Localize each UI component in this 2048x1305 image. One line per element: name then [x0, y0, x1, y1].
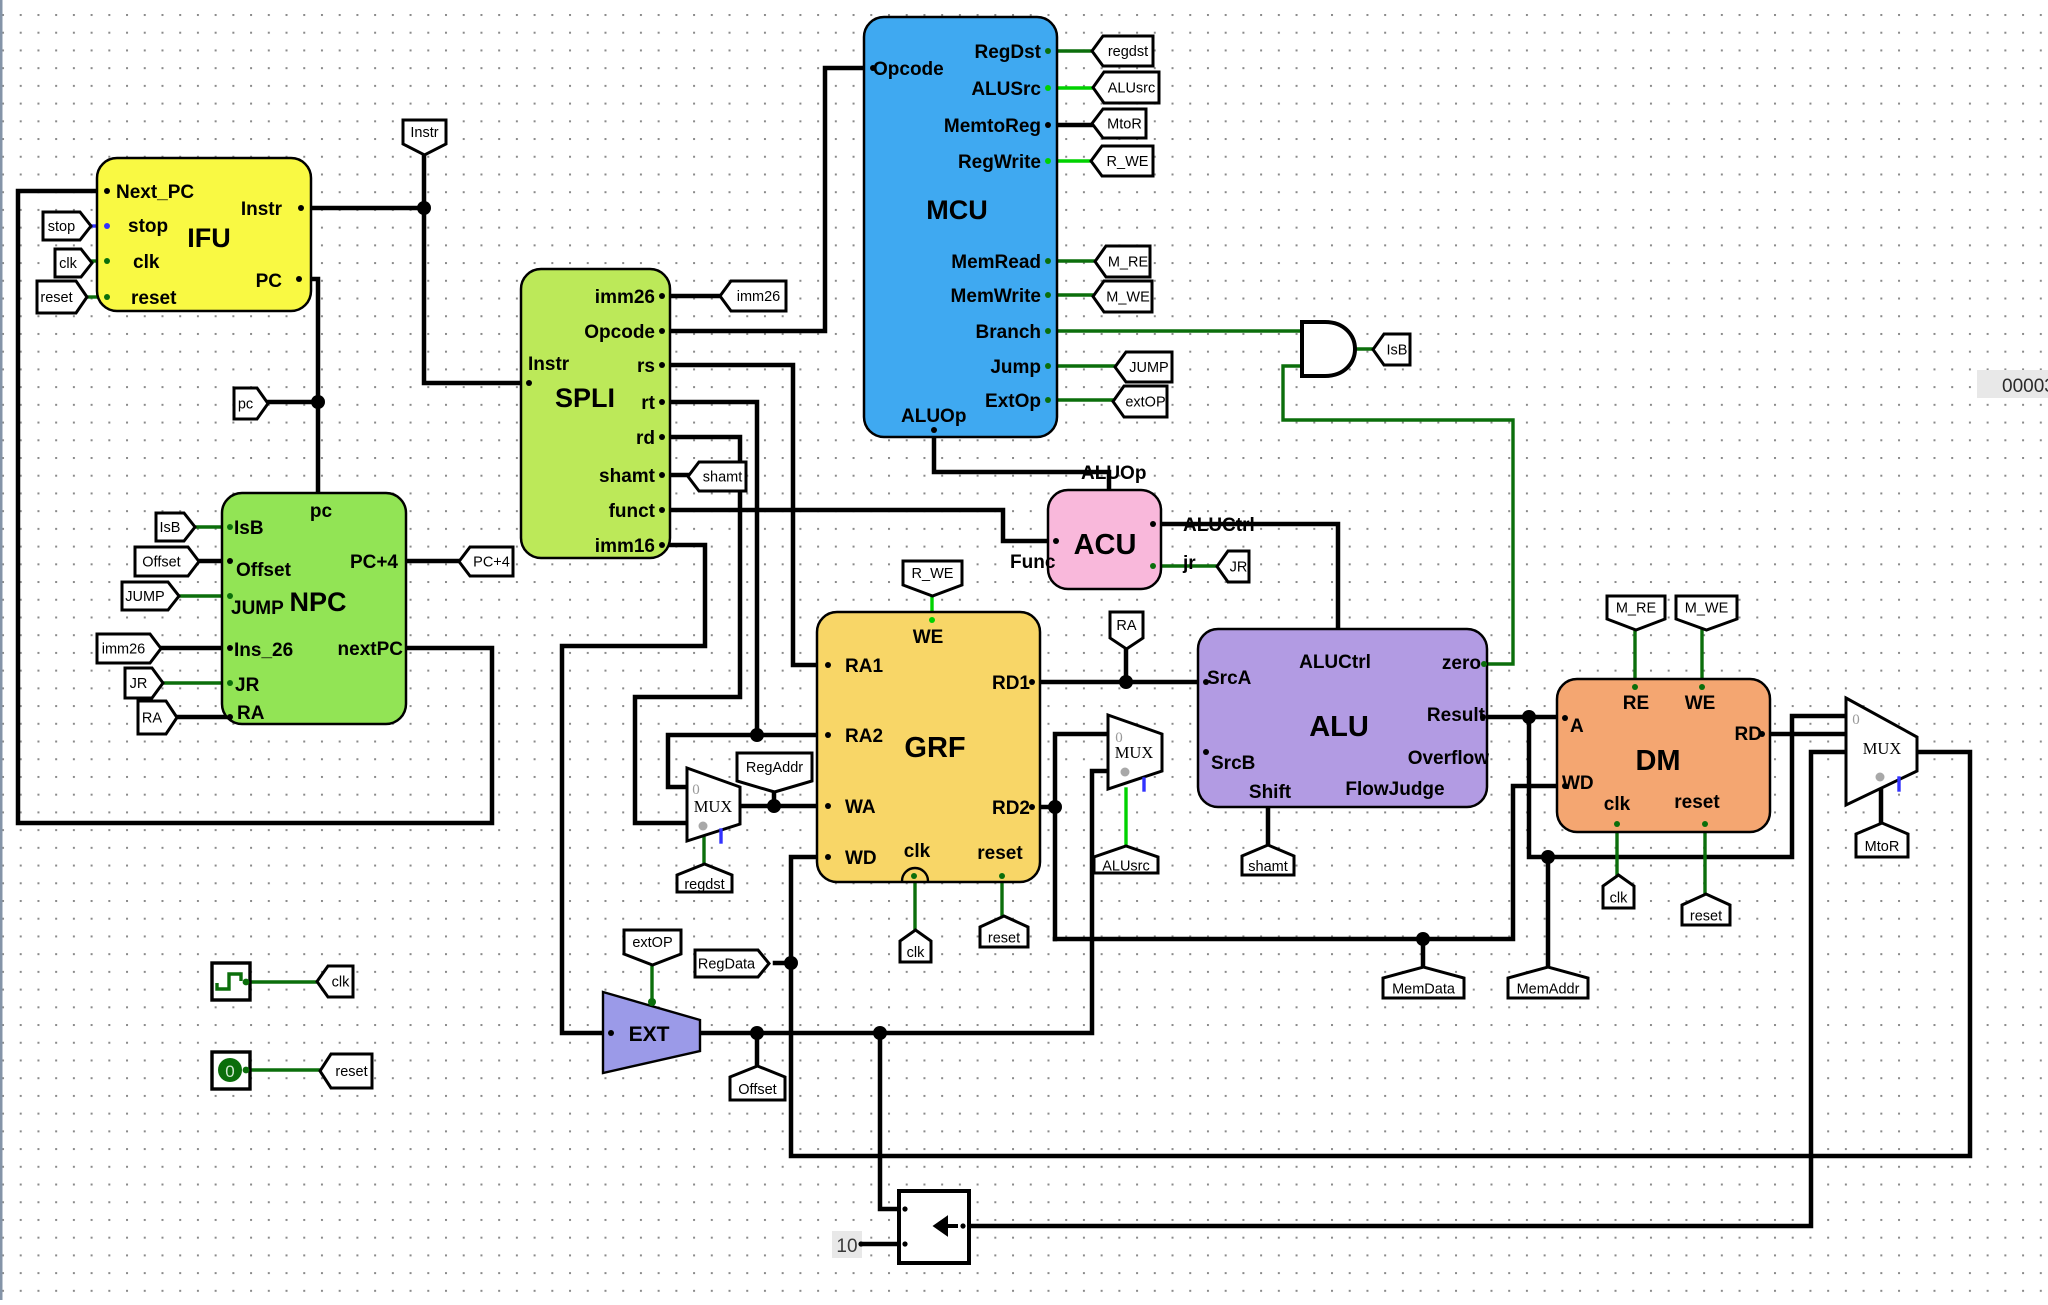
subcircuit NPC	[222, 493, 406, 724]
pin JR	[227, 680, 233, 686]
constant 0	[212, 1052, 250, 1089]
svg-text:IFU: IFU	[187, 223, 231, 253]
subcircuit MCU	[864, 17, 1057, 437]
wire Branch to AND gate	[1057, 329, 1302, 332]
AND gate	[1302, 322, 1355, 376]
tunnel R_WE (MCU)	[1091, 146, 1153, 176]
svg-text:RA: RA	[237, 703, 265, 724]
svg-text:ALUSrc: ALUSrc	[971, 79, 1041, 100]
svg-text:Offset: Offset	[236, 560, 292, 581]
svg-text:Opcode: Opcode	[873, 59, 944, 80]
tunnel reset (GRF)	[980, 916, 1028, 947]
extender EXT	[603, 992, 700, 1073]
pin zero	[1481, 661, 1487, 667]
svg-text:jr: jr	[1182, 553, 1196, 574]
svg-text:ExtOp: ExtOp	[985, 391, 1041, 412]
wire DM clk stub	[1615, 832, 1618, 876]
tunnel clk (GRF)	[900, 930, 931, 962]
mux ALUsrc select dot	[1121, 768, 1130, 777]
svg-text:IsB: IsB	[234, 518, 264, 539]
subcircuit ALU	[1198, 629, 1487, 807]
clock input arc GRF	[902, 868, 928, 881]
pin WA	[825, 803, 831, 809]
svg-text:RA: RA	[1116, 618, 1136, 634]
svg-text:RegAddr: RegAddr	[746, 760, 803, 776]
svg-text:reset: reset	[988, 931, 1020, 947]
svg-text:Overflow: Overflow	[1408, 748, 1490, 769]
junction Instr	[417, 201, 431, 215]
svg-text:Ins_26: Ins_26	[234, 640, 293, 661]
svg-text:Jump: Jump	[990, 357, 1041, 378]
svg-text:RD: RD	[1735, 724, 1762, 745]
pin ALUCtrl out	[1150, 521, 1156, 527]
svg-text:0: 0	[692, 782, 700, 798]
pin stop	[104, 223, 110, 229]
wire AND output to IsB tunnel	[1355, 347, 1373, 350]
tunnel PC+4	[459, 547, 513, 576]
svg-text:clk: clk	[907, 945, 925, 961]
svg-text:reset: reset	[335, 1064, 367, 1080]
svg-text:Next_PC: Next_PC	[116, 182, 194, 203]
pin SPLI shamt	[659, 472, 665, 478]
tunnel IsB (AND out)	[1373, 334, 1410, 365]
wire reset stub	[86, 295, 97, 298]
svg-text:Instr: Instr	[528, 354, 570, 375]
pin clk	[104, 258, 110, 264]
junction RD2	[1048, 800, 1062, 814]
wire extOP to EXT	[650, 964, 653, 1000]
svg-text:clk: clk	[332, 975, 350, 991]
svg-text:shamt: shamt	[1248, 859, 1288, 875]
subcircuit IFU	[97, 158, 311, 311]
pin WD	[825, 854, 831, 860]
junction EXT-shifter	[873, 1026, 887, 1040]
wire jr to JR tunnel	[1161, 564, 1217, 567]
svg-text:FlowJudge: FlowJudge	[1345, 779, 1444, 800]
svg-text:M_RE: M_RE	[1108, 255, 1149, 271]
wire stop stub	[90, 224, 97, 227]
svg-text:RA2: RA2	[845, 726, 883, 747]
tunnel RegData	[695, 950, 769, 977]
svg-text:M_WE: M_WE	[1106, 290, 1150, 306]
tunnel MtoR (MCU)	[1092, 109, 1146, 138]
pin SPLI imm26	[659, 293, 665, 299]
wire Result to DM A	[1487, 715, 1557, 720]
svg-text:RD2: RD2	[992, 798, 1030, 819]
wire shifter output to MUX	[969, 752, 1846, 1226]
svg-text:MemtoReg: MemtoReg	[944, 116, 1041, 137]
pin RA	[227, 714, 233, 720]
svg-text:MUX: MUX	[694, 797, 733, 816]
mux regdst enable stub	[719, 830, 722, 842]
pin RD2	[1029, 804, 1035, 810]
svg-text:Opcode: Opcode	[584, 322, 655, 343]
svg-text:WA: WA	[845, 797, 876, 818]
junction EXT-Offset	[750, 1026, 764, 1040]
svg-text:PC+4: PC+4	[473, 555, 510, 571]
wire RA tunnel to NPC	[176, 715, 226, 720]
wire nextPC feedback loop	[18, 191, 492, 823]
wire zero to AND gate	[1283, 366, 1513, 664]
svg-text:MtoR: MtoR	[1107, 117, 1142, 133]
svg-text:0: 0	[1115, 730, 1123, 746]
wire RD2 branch	[1040, 805, 1055, 810]
pin DM clk	[1614, 821, 1620, 827]
wire RD1 to SrcA	[1040, 680, 1198, 685]
pin SrcB	[1203, 749, 1209, 755]
wire clk stub	[91, 259, 97, 262]
wire const 10 to shifter	[863, 1242, 899, 1247]
pin RD	[1759, 731, 1765, 737]
svg-text:SrcB: SrcB	[1211, 753, 1255, 774]
wire GRF clk stub	[913, 882, 916, 931]
svg-text:MemWrite: MemWrite	[951, 286, 1041, 307]
wire R_WE to WE	[930, 593, 933, 612]
svg-text:JUMP: JUMP	[231, 598, 284, 619]
pin GRF reset	[999, 873, 1005, 879]
tunnel R_WE (GRF)	[903, 561, 962, 596]
svg-text:reset: reset	[1674, 792, 1720, 813]
pin MemRead	[1045, 258, 1051, 264]
pin SPLI rs	[659, 362, 665, 368]
svg-text:M_RE: M_RE	[1616, 601, 1657, 617]
svg-text:ALUCtrl: ALUCtrl	[1299, 652, 1371, 673]
svg-text:EXT: EXT	[629, 1023, 670, 1046]
wire JR tunnel to NPC	[162, 681, 226, 684]
pin RE	[1632, 684, 1638, 690]
wire DM RD to MUX	[1770, 732, 1846, 737]
wire RegAddr stub	[772, 792, 777, 806]
svg-text:Shift: Shift	[1249, 782, 1292, 803]
wire M_RE stub	[1633, 627, 1636, 684]
tunnel ALUsrc (mux)	[1094, 846, 1158, 873]
svg-text:clk: clk	[59, 256, 77, 272]
constant 10	[832, 1231, 862, 1258]
wire MemWrite stub	[1057, 293, 1093, 296]
tunnel MtoR (mux)	[1856, 823, 1908, 857]
svg-text:Result: Result	[1427, 705, 1486, 726]
tunnel MemAddr	[1508, 967, 1588, 998]
svg-text:funct: funct	[609, 501, 656, 522]
svg-text:clk: clk	[133, 252, 160, 273]
pin shifter dist	[902, 1241, 907, 1246]
svg-text:nextPC: nextPC	[338, 639, 404, 660]
svg-text:WD: WD	[845, 848, 877, 869]
svg-text:RA1: RA1	[845, 656, 883, 677]
wire GRF reset stub	[1000, 882, 1003, 917]
wire WA line	[740, 804, 817, 809]
pin SPLI funct	[659, 507, 665, 513]
tunnel ALUsrc (MCU)	[1093, 72, 1159, 103]
svg-text:IsB: IsB	[1387, 343, 1408, 359]
pin ALUOp	[931, 427, 937, 433]
wire Instr vertical to SPLI	[424, 152, 521, 383]
pin EXT in	[608, 1030, 614, 1036]
svg-text:R_WE: R_WE	[912, 566, 954, 582]
junction RegData-WD	[784, 956, 798, 970]
pin shifter A	[902, 1206, 907, 1211]
tunnel JUMP (NPC)	[122, 582, 179, 610]
svg-text:ALUCtrl: ALUCtrl	[1183, 515, 1255, 536]
wire M_WE stub	[1700, 627, 1703, 684]
junction RA-RD1	[1119, 675, 1133, 689]
pin MemWrite	[1045, 292, 1051, 298]
wire ExtOp stub	[1057, 398, 1113, 401]
pin RD1	[1029, 679, 1035, 685]
tunnel M_WE (MCU)	[1093, 281, 1152, 312]
svg-text:imm26: imm26	[102, 642, 146, 658]
subcircuit SPLI	[521, 269, 670, 558]
svg-text:JR: JR	[235, 675, 260, 696]
pin DM WD	[1562, 783, 1568, 789]
pin Ins_26	[227, 645, 233, 651]
shifter	[899, 1191, 969, 1263]
wire RegWrite stub	[1057, 159, 1091, 162]
svg-text:MemRead: MemRead	[951, 252, 1041, 273]
svg-text:10: 10	[836, 1236, 857, 1257]
svg-text:Offset: Offset	[738, 1082, 776, 1098]
svg-text:GRF: GRF	[904, 732, 965, 764]
wire MemtoReg stub	[1057, 123, 1092, 128]
svg-text:PC+4: PC+4	[350, 552, 398, 573]
wire Offset tunnel to NPC	[198, 559, 226, 564]
svg-text:ALU: ALU	[1309, 711, 1369, 743]
pin MemtoReg	[1045, 122, 1051, 128]
svg-text:Func: Func	[1010, 552, 1056, 573]
tunnel clk (source)	[317, 966, 353, 997]
pin SPLI rd	[659, 434, 665, 440]
wire Jump stub	[1057, 364, 1115, 367]
wire Result to MUX in0	[1529, 716, 1846, 857]
tunnel M_RE (DM)	[1607, 596, 1665, 630]
svg-text:rt: rt	[641, 393, 655, 414]
pin Branch	[1045, 328, 1051, 334]
wire regdst select stub	[702, 836, 705, 865]
svg-text:Offset: Offset	[142, 555, 180, 571]
wire const0 to reset tunnel	[250, 1068, 321, 1071]
tunnel reset (IFU)	[37, 281, 87, 313]
svg-text:DM: DM	[1635, 745, 1680, 777]
wire rd to mux	[635, 437, 740, 823]
wire DM reset stub	[1703, 832, 1706, 895]
tunnel Instr (top)	[403, 120, 446, 155]
wire WD write-back	[791, 752, 1970, 1156]
tunnel stop	[43, 212, 91, 240]
junction MemData	[1416, 932, 1430, 946]
tunnel clk (IFU)	[55, 249, 92, 277]
pin SPLI rt	[659, 399, 665, 405]
clock source	[212, 963, 250, 1000]
junction RegAddr-WA	[767, 799, 781, 813]
pin GRF clk	[911, 873, 917, 879]
svg-text:RegWrite: RegWrite	[958, 152, 1041, 173]
tunnel RA (GRF)	[1110, 612, 1143, 649]
svg-text:M_WE: M_WE	[1685, 601, 1729, 617]
svg-text:clk: clk	[1610, 891, 1628, 907]
pin RegDst	[1045, 48, 1051, 54]
svg-text:JR: JR	[1230, 560, 1248, 576]
svg-text:MtoR: MtoR	[1865, 839, 1900, 855]
wire ALUsrc select stub	[1124, 789, 1127, 847]
tunnel JR (NPC)	[125, 668, 163, 698]
pin RA2	[825, 732, 831, 738]
pin Next_PC	[104, 188, 110, 194]
svg-text:MCU: MCU	[926, 195, 988, 225]
svg-text:regdst: regdst	[1108, 44, 1148, 60]
pin SrcA	[1203, 679, 1209, 685]
tunnel extOP (EXT)	[624, 930, 681, 965]
wire MemRead stub	[1057, 259, 1095, 262]
svg-text:ALUOp: ALUOp	[901, 406, 966, 427]
wire ALUSrc stub	[1057, 86, 1093, 89]
wire ALUOp to ACU	[934, 437, 1109, 490]
pin Opcode	[870, 65, 876, 71]
svg-text:SrcA: SrcA	[1207, 668, 1252, 689]
svg-text:clk: clk	[904, 841, 931, 862]
wire Offset stub	[755, 1033, 760, 1067]
svg-text:stop: stop	[48, 219, 75, 235]
pin SPLI Instr	[526, 380, 532, 386]
pin Instr	[298, 205, 304, 211]
svg-text:extOP: extOP	[632, 935, 672, 951]
svg-text:WD: WD	[1562, 773, 1594, 794]
wire RD2 to DM WD	[1055, 786, 1557, 939]
mux MtoR enable stub	[1897, 778, 1900, 790]
svg-text:RD1: RD1	[992, 673, 1030, 694]
pin RA1	[825, 662, 831, 668]
svg-text:stop: stop	[128, 216, 168, 237]
wire rt vertical	[670, 402, 757, 735]
svg-text:ALUOp: ALUOp	[1081, 463, 1146, 484]
svg-text:imm16: imm16	[595, 536, 655, 557]
svg-text:R_WE: R_WE	[1107, 154, 1149, 170]
tunnel M_WE (DM)	[1676, 596, 1737, 630]
pin PC	[296, 276, 302, 282]
pin WE	[929, 617, 935, 623]
tunnel RegAddr	[737, 753, 812, 792]
tunnel extOP (MCU)	[1113, 386, 1167, 417]
svg-text:imm26: imm26	[595, 287, 655, 308]
wire PC to NPC pc	[311, 279, 318, 493]
tunnel regdst (MCU)	[1092, 36, 1153, 66]
wire imm26 tunnel to Ins_26	[160, 646, 226, 651]
wire IsB tunnel to NPC	[194, 525, 226, 528]
tunnel regdst (mux)	[677, 864, 732, 892]
pin RegWrite	[1045, 158, 1051, 164]
wire EXT output	[700, 771, 1108, 1033]
mux MtoR select dot	[1876, 773, 1885, 782]
tunnel imm26 (NPC)	[97, 634, 161, 663]
wire imm16 to EXT	[562, 545, 705, 1033]
svg-text:NPC: NPC	[289, 587, 346, 617]
wire RA2 line	[668, 735, 817, 787]
wire Shift to shamt tunnel	[1266, 807, 1271, 846]
pin Jump	[1045, 363, 1051, 369]
svg-text:PC: PC	[256, 271, 283, 292]
wire MemAddr stub	[1546, 857, 1551, 968]
svg-text:JUMP: JUMP	[1129, 360, 1168, 376]
tunnel JUMP (MCU)	[1115, 352, 1172, 382]
svg-text:Instr: Instr	[241, 199, 283, 220]
svg-text:A: A	[1570, 716, 1584, 737]
mux regdst	[687, 768, 740, 841]
probe value 00003	[1977, 370, 2048, 398]
junction pc	[311, 395, 325, 409]
svg-text:ACU: ACU	[1074, 529, 1137, 561]
subcircuit DM	[1557, 679, 1770, 832]
wire funct to ACU Func	[670, 510, 1048, 541]
svg-text:regdst: regdst	[684, 877, 724, 893]
svg-text:MemData: MemData	[1392, 982, 1456, 998]
pin SPLI Opcode	[659, 328, 665, 334]
pin const10	[858, 1241, 863, 1246]
svg-text:MUX: MUX	[1863, 739, 1902, 758]
wire MemData stub	[1421, 939, 1426, 968]
pin JUMP	[227, 593, 233, 599]
svg-text:Instr: Instr	[410, 125, 438, 141]
mux ALUsrc	[1108, 715, 1162, 789]
svg-text:Branch: Branch	[976, 322, 1041, 343]
tunnel MemData	[1383, 967, 1464, 998]
wire RegData stub	[775, 961, 791, 966]
tunnel RA (NPC)	[138, 701, 177, 734]
pin A	[1562, 715, 1568, 721]
pin ALUSrc	[1045, 85, 1051, 91]
svg-text:RegData: RegData	[698, 957, 756, 973]
svg-text:WE: WE	[1685, 693, 1716, 714]
wire Instr (IFU to junction)	[311, 206, 424, 211]
wire JUMP tunnel to NPC	[178, 594, 226, 597]
mux MtoR	[1846, 698, 1917, 805]
pin DM WE	[1699, 684, 1705, 690]
tunnel JR (ACU)	[1217, 551, 1249, 582]
svg-text:JR: JR	[130, 676, 148, 692]
tunnel IsB (NPC)	[156, 513, 195, 541]
svg-text:rd: rd	[636, 428, 655, 449]
svg-text:pc: pc	[238, 397, 253, 413]
svg-text:reset: reset	[131, 288, 177, 309]
wire ALUCtrl to ALU	[1161, 524, 1338, 629]
tunnel M_RE (MCU)	[1095, 246, 1150, 277]
svg-text:pc: pc	[310, 501, 333, 522]
pin shifter out	[960, 1223, 965, 1228]
svg-text:RA: RA	[142, 711, 162, 727]
junction MemAddr	[1541, 850, 1555, 864]
wire Opcode to MCU	[670, 68, 864, 331]
pin EXT extOP	[648, 998, 656, 1006]
wire pc tunnel stub	[267, 400, 318, 405]
svg-text:shamt: shamt	[703, 470, 743, 486]
svg-text:RegDst: RegDst	[974, 42, 1041, 63]
tunnel Offset (EXT)	[730, 1066, 785, 1100]
tunnel shamt (ALU)	[1242, 845, 1294, 875]
wire PC+4 to tunnel	[406, 559, 460, 564]
pin Result	[1480, 714, 1486, 720]
tunnel imm26 (SPLI)	[720, 281, 786, 311]
svg-text:MemAddr: MemAddr	[1517, 982, 1580, 998]
wire RegDst stub	[1057, 49, 1092, 52]
svg-text:shamt: shamt	[599, 466, 656, 487]
pin reset	[104, 294, 110, 300]
mux regdst select dot	[699, 822, 708, 831]
svg-text:reset: reset	[40, 290, 72, 306]
wire MtoR select stub	[1879, 789, 1884, 824]
mux ALUsrc enable stub	[1142, 779, 1145, 790]
pin const0 out	[243, 1067, 250, 1074]
wire to shifter A	[880, 1033, 899, 1209]
svg-text:reset: reset	[1690, 909, 1722, 925]
svg-text:imm26: imm26	[737, 289, 781, 305]
